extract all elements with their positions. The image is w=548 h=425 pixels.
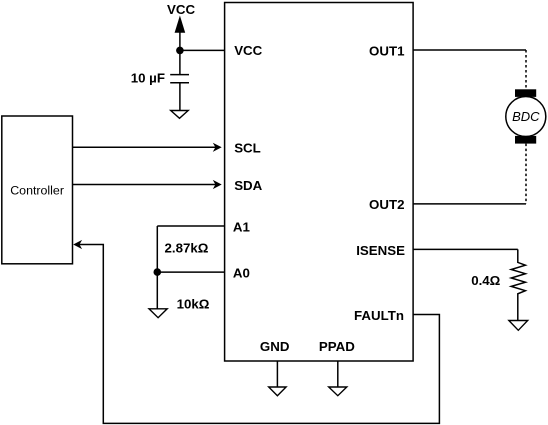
svg-text:VCC: VCC [167, 2, 195, 17]
svg-text:OUT1: OUT1 [369, 43, 405, 58]
svg-text:Controller: Controller [10, 184, 64, 198]
svg-text:FAULTn: FAULTn [354, 308, 404, 323]
svg-text:A0: A0 [233, 265, 250, 280]
svg-text:PPAD: PPAD [319, 339, 355, 354]
svg-text:ISENSE: ISENSE [356, 243, 405, 258]
svg-text:BDC: BDC [512, 109, 540, 124]
svg-text:2.87kΩ: 2.87kΩ [165, 240, 209, 255]
svg-text:A1: A1 [233, 219, 251, 234]
svg-text:SCL: SCL [234, 141, 261, 156]
svg-text:10 µF: 10 µF [131, 71, 165, 86]
svg-text:OUT2: OUT2 [369, 197, 404, 212]
svg-text:0.4Ω: 0.4Ω [471, 273, 500, 288]
svg-text:VCC: VCC [234, 43, 262, 58]
svg-text:GND: GND [260, 339, 290, 354]
svg-text:SDA: SDA [234, 178, 262, 193]
svg-text:10kΩ: 10kΩ [177, 296, 210, 311]
